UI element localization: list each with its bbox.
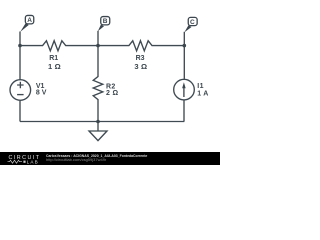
svg-text:A: A [27,17,32,24]
svg-text:8 V: 8 V [36,89,47,96]
svg-text:2 Ω: 2 Ω [106,90,118,97]
svg-text:LAB: LAB [27,160,39,165]
svg-text:http://circuitlab.com/csg59j37: http://circuitlab.com/csg59j37w49r [46,157,107,162]
svg-text:3 Ω: 3 Ω [134,62,147,71]
svg-text:B: B [103,18,108,25]
svg-text:C: C [190,19,195,26]
svg-text:1 A: 1 A [197,90,208,97]
svg-text:1 Ω: 1 Ω [48,62,61,71]
svg-text:I1: I1 [197,83,204,90]
